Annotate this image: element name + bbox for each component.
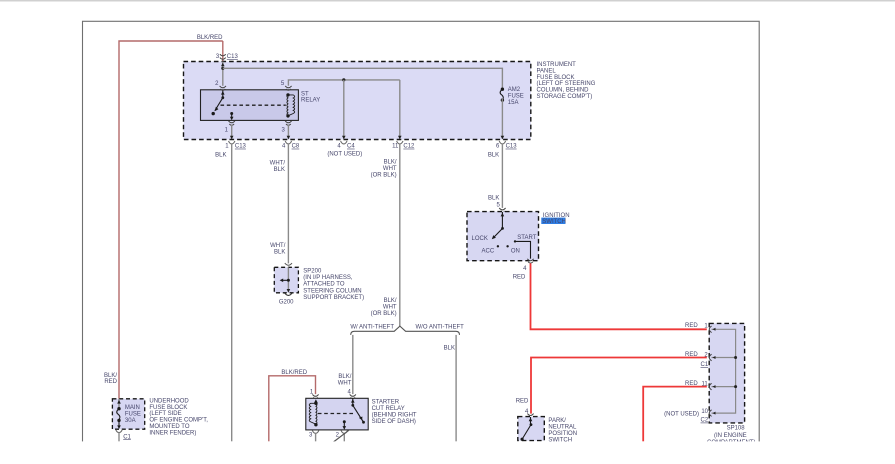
starter relay fixed contact to pin 2 — [343, 420, 347, 430]
wire BLK/RED from instrument panel fuse block to underhood fuse block — [119, 41, 223, 399]
fuse MAIN 30A — [117, 399, 121, 429]
option split brace — [351, 326, 460, 335]
wire down to C12 — [398, 80, 402, 139]
svg-text:BLK: BLK — [215, 152, 226, 158]
svg-text:BLK/RED: BLK/RED — [197, 35, 223, 41]
junction dot — [221, 67, 224, 70]
wire to AM2 fuse — [223, 68, 503, 89]
svg-text:UNDERHOOD: UNDERHOOD — [149, 398, 189, 404]
svg-text:WHT: WHT — [383, 305, 397, 311]
starter relay switch arm — [351, 398, 365, 423]
svg-text:(BEHIND RIGHT: (BEHIND RIGHT — [372, 413, 417, 419]
starter relay pin 1 connector — [312, 394, 318, 398]
svg-text:FUSE BLOCK: FUSE BLOCK — [537, 75, 575, 81]
ignition switch pin 5 connector — [499, 208, 505, 212]
svg-text:INSTRUMENT: INSTRUMENT — [537, 62, 577, 68]
svg-text:C13: C13 — [235, 144, 247, 150]
wire BLK down to ignition switch — [501, 144, 503, 208]
svg-text:RELAY: RELAY — [301, 98, 320, 104]
contact dot ACC — [497, 245, 499, 247]
svg-text:(OR BLK): (OR BLK) — [371, 172, 397, 178]
relay pin 2 — [220, 86, 226, 90]
svg-text:LOCK: LOCK — [472, 236, 488, 242]
svg-text:1: 1 — [225, 144, 229, 150]
svg-text:RED: RED — [685, 381, 698, 387]
svg-text:ON: ON — [511, 249, 520, 255]
connector 4 C8 — [285, 141, 291, 144]
svg-text:G200: G200 — [279, 300, 294, 306]
svg-text:BLK/RED: BLK/RED — [281, 370, 307, 376]
svg-text:(IN ENGINE: (IN ENGINE — [714, 433, 747, 439]
svg-text:SUPPORT BRACKET): SUPPORT BRACKET) — [303, 295, 364, 301]
svg-text:3: 3 — [216, 54, 220, 60]
svg-text:1: 1 — [310, 389, 314, 395]
label SP108 — [707, 425, 755, 446]
svg-text:STORAGE COMP'T): STORAGE COMP'T) — [537, 94, 593, 100]
starter relay pin 4 connector — [350, 394, 356, 398]
wire down to C4 — [342, 80, 346, 139]
relay dashed actuator link — [221, 104, 286, 106]
ignition pin 4 connector — [527, 259, 533, 263]
svg-text:CUT RELAY: CUT RELAY — [372, 406, 405, 412]
wire BLK long down — [231, 144, 233, 442]
svg-text:START: START — [517, 235, 536, 241]
svg-text:11: 11 — [701, 382, 708, 388]
svg-text:WHT/: WHT/ — [270, 243, 286, 249]
label SP200 — [303, 269, 364, 301]
svg-text:POSITION: POSITION — [548, 431, 577, 437]
svg-text:4: 4 — [337, 144, 341, 150]
junction dot — [342, 78, 345, 81]
label WHT/BLK — [270, 160, 286, 172]
starter relay pin 2 connector — [341, 430, 347, 433]
svg-text:C13: C13 — [227, 54, 239, 60]
label MAIN FUSE 30A — [125, 405, 141, 424]
park/neutral pin 4 connector — [527, 414, 533, 416]
svg-text:PARK/: PARK/ — [548, 418, 566, 424]
ground G200 — [279, 293, 294, 305]
svg-text:3: 3 — [309, 433, 313, 439]
ST relay box — [201, 90, 299, 121]
svg-text:STARTER: STARTER — [372, 399, 400, 405]
svg-text:11: 11 — [392, 144, 399, 150]
underhood fuse block (MAIN FUSE 30A) — [112, 399, 144, 429]
wire below C1 — [118, 433, 120, 442]
svg-text:WHT: WHT — [383, 166, 397, 172]
svg-text:RED: RED — [516, 399, 529, 405]
svg-text:ST: ST — [301, 91, 309, 97]
connector 1 C13 (below block) — [229, 141, 235, 144]
svg-text:6: 6 — [496, 144, 500, 150]
svg-text:C1: C1 — [123, 434, 131, 440]
contact dot ON — [506, 245, 508, 247]
wire RED ignition to splice pin 1 — [531, 263, 707, 329]
svg-text:(LEFT SIDE: (LEFT SIDE — [149, 411, 181, 417]
svg-text:BLK/: BLK/ — [384, 160, 397, 166]
svg-text:RED: RED — [685, 323, 698, 329]
relay switch arm — [212, 91, 225, 116]
wire left branch to starter cut relay — [352, 335, 354, 394]
svg-text:4: 4 — [347, 389, 351, 395]
svg-text:MAIN: MAIN — [125, 405, 140, 411]
wire below pin 3 — [315, 433, 317, 441]
starter relay coil — [309, 399, 318, 426]
svg-text:BLK: BLK — [488, 152, 499, 158]
ignition switch arm — [492, 212, 504, 239]
label BLK/WHT (OR BLK) — [371, 160, 397, 179]
wire pin3 to block edge — [287, 125, 291, 139]
wire below pin 2 with slash — [334, 430, 349, 442]
svg-text:W/O ANTI-THEFT: W/O ANTI-THEFT — [416, 325, 465, 331]
relay pin 1 — [229, 121, 235, 125]
connector 4 C4 (not used) — [341, 141, 347, 144]
wire inside fuse block from pin 3 to relay pin 2 — [221, 62, 225, 86]
svg-text:INNER FENDER): INNER FENDER) — [149, 431, 196, 437]
label BLK/RED (left, near underhood block) — [104, 373, 118, 385]
fuse AM2 15A — [500, 88, 504, 102]
label (NOT USED) pin 10 — [664, 409, 709, 417]
svg-text:(LEFT OF STEERING: (LEFT OF STEERING — [537, 81, 596, 87]
svg-text:RED: RED — [685, 352, 698, 358]
svg-text:ATTACHED TO: ATTACHED TO — [303, 282, 345, 288]
label starter cut relay — [372, 399, 417, 425]
label ST relay — [301, 91, 320, 103]
svg-text:PANEL: PANEL — [537, 68, 557, 74]
label underhood fuse block — [149, 398, 208, 436]
svg-text:C12: C12 — [403, 144, 415, 150]
ignition switch box — [467, 212, 539, 261]
page border frame — [83, 21, 760, 456]
splice SP200 box — [274, 267, 298, 293]
starter cut relay box — [306, 398, 368, 430]
SP200 internal wire — [280, 267, 291, 292]
wire pin 5 up and across — [288, 80, 399, 86]
svg-text:C8: C8 — [292, 144, 300, 150]
label 4 C4 — [337, 144, 355, 150]
contact dot START — [514, 240, 516, 242]
connector at SP200 top — [285, 263, 292, 265]
svg-text:C1: C1 — [701, 362, 709, 368]
svg-text:30A: 30A — [125, 418, 136, 424]
svg-text:ACC: ACC — [482, 249, 495, 255]
svg-text:5: 5 — [496, 202, 500, 208]
svg-text:1: 1 — [704, 324, 708, 330]
instrument panel fuse block — [184, 62, 531, 140]
svg-text:FUSE: FUSE — [508, 94, 524, 100]
label instrument panel fuse block — [537, 62, 596, 100]
label AM2 FUSE 15A — [508, 87, 524, 106]
svg-text:AM2: AM2 — [508, 87, 521, 93]
relay pin 5 — [285, 86, 291, 90]
wire RED splice pin 11 down — [643, 387, 707, 442]
svg-text:FUSE BLOCK: FUSE BLOCK — [149, 405, 187, 411]
svg-text:FUSE: FUSE — [125, 412, 141, 418]
wire START contact to pin 4 — [515, 241, 531, 258]
connector 3 C13 (top of fuse block) — [220, 54, 226, 59]
label WHT/BLK (above SP200) — [270, 243, 286, 255]
label 1 C13 — [225, 144, 246, 150]
starter relay dashed actuator link — [318, 413, 355, 415]
svg-text:(NOT USED): (NOT USED) — [327, 152, 362, 158]
svg-text:15A: 15A — [508, 100, 519, 106]
svg-text:(NOT USED): (NOT USED) — [664, 411, 699, 417]
svg-text:(IN I/P HARNESS,: (IN I/P HARNESS, — [303, 275, 353, 281]
svg-text:SWITCH: SWITCH — [542, 219, 566, 225]
svg-text:SP200: SP200 — [303, 269, 322, 275]
svg-text:C4: C4 — [347, 144, 355, 150]
svg-text:BLK/: BLK/ — [384, 298, 397, 304]
label SWITCH (highlighted) — [541, 218, 566, 226]
svg-text:RED: RED — [104, 379, 117, 385]
svg-text:C13: C13 — [506, 144, 518, 150]
svg-text:(OR BLK): (OR BLK) — [371, 311, 397, 317]
svg-text:STEERING COLUMN: STEERING COLUMN — [303, 288, 361, 294]
label park/neutral position switch — [548, 418, 577, 444]
svg-text:WHT: WHT — [338, 381, 352, 387]
svg-text:RED: RED — [513, 274, 526, 280]
wire pin1 to block edge — [230, 125, 234, 139]
svg-text:WHT/: WHT/ — [270, 160, 286, 166]
svg-text:BLK: BLK — [274, 167, 285, 173]
label BLK/WHT (OR BLK) above split — [371, 298, 397, 317]
relay coil — [286, 93, 294, 117]
label 11 C12 — [392, 144, 415, 150]
svg-text:SIDE OF DASH): SIDE OF DASH) — [372, 419, 416, 425]
svg-text:MOUNTED TO: MOUNTED TO — [149, 424, 189, 430]
wire RED splice pin 2 to park/neutral switch — [531, 358, 707, 414]
svg-text:4: 4 — [282, 144, 286, 150]
label BLK/WHT (starter relay pin 4) — [338, 374, 352, 386]
svg-text:OF ENGINE COMP'T,: OF ENGINE COMP'T, — [149, 418, 208, 424]
SP108 pin 2 connector — [709, 354, 711, 361]
svg-text:COLUMN, BEHIND: COLUMN, BEHIND — [537, 88, 590, 94]
bottom clip mask — [0, 441, 895, 464]
top toolbar hairline — [0, 0, 895, 2]
svg-text:C2: C2 — [701, 418, 709, 424]
SP108 pin 1 connector — [709, 326, 711, 333]
svg-text:4: 4 — [523, 266, 527, 272]
splice block SP108 — [709, 323, 744, 423]
wire WHT/BLK down to SP200 — [287, 144, 289, 264]
svg-text:NEUTRAL: NEUTRAL — [548, 425, 577, 431]
svg-text:BLK: BLK — [274, 249, 285, 255]
SP108 internal bus — [712, 328, 738, 415]
relay pin 3 — [285, 121, 291, 125]
svg-text:BLK/: BLK/ — [338, 374, 351, 380]
SP108 pin 11 connector — [709, 383, 711, 390]
wire BLK/WHT down to split — [399, 144, 401, 326]
label 6 C13 — [496, 144, 517, 150]
wire BLK/RED to starter cut relay — [269, 376, 316, 442]
wire right branch BLK — [455, 335, 457, 442]
SP108 pin 10 connector — [709, 410, 711, 417]
park/neutral switch arm — [521, 417, 533, 441]
svg-text:10: 10 — [701, 409, 708, 415]
relay switch output to pin 1 — [230, 112, 234, 120]
connector 11 C12 — [397, 141, 403, 144]
label 4 C8 — [282, 144, 300, 150]
svg-text:BLK: BLK — [444, 345, 455, 351]
park/neutral position switch box — [518, 417, 545, 441]
svg-text:W/ ANTI-THEFT: W/ ANTI-THEFT — [350, 325, 394, 331]
svg-text:SP108: SP108 — [727, 425, 746, 431]
connector C1 (below main fuse) — [116, 430, 122, 433]
svg-text:BLK/: BLK/ — [104, 373, 117, 379]
connector 6 C13 — [499, 141, 505, 144]
svg-text:BLK: BLK — [488, 196, 499, 202]
svg-text:2: 2 — [704, 353, 708, 359]
wire fuse to block edge — [501, 98, 505, 139]
starter relay pin 3 connector — [312, 430, 318, 433]
